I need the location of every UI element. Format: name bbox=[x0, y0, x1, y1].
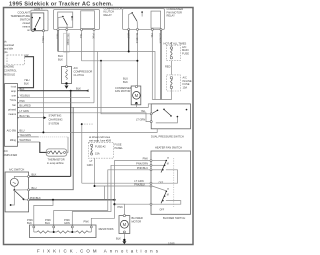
wire9 WHT/BLU to thermistor bbox=[20, 138, 48, 152]
svg-text:in evap airflow: in evap airflow bbox=[47, 161, 64, 165]
dual pressure switch S2 bbox=[150, 104, 190, 129]
fuse panel fuse #2 (dashed) bbox=[88, 142, 113, 158]
svg-text:YEL/GRN: YEL/GRN bbox=[20, 133, 32, 137]
svg-text:FUSE #2: FUSE #2 bbox=[95, 144, 106, 148]
A/C in-line fuse F2 (dashed box) bbox=[167, 75, 181, 91]
wire PNK to blower motor bbox=[115, 204, 151, 214]
wire A2 to amplifier (YEL/BLK) bbox=[19, 57, 34, 88]
svg-text:BLU/BLK: BLU/BLK bbox=[159, 33, 162, 44]
svg-text:YEL: YEL bbox=[150, 33, 153, 38]
svg-text:PANEL: PANEL bbox=[115, 146, 124, 150]
node condenser fan motor return bbox=[135, 102, 137, 107]
compressor clutch relay label bbox=[104, 6, 123, 16]
svg-text:amp: amp bbox=[11, 90, 17, 93]
svg-text:BLU/BLK: BLU/BLK bbox=[135, 33, 138, 44]
blower motor label bbox=[132, 216, 143, 224]
svg-text:at drivers left knee: at drivers left knee bbox=[89, 135, 111, 139]
A/C amplifier label bbox=[4, 149, 18, 157]
svg-text:GRN: GRN bbox=[64, 221, 70, 225]
svg-text:YEL/BLU: YEL/BLU bbox=[20, 94, 31, 98]
svg-text:A/C SWITCH: A/C SWITCH bbox=[9, 168, 24, 172]
svg-text:LT GRN: LT GRN bbox=[20, 109, 29, 113]
svg-text:RELAY: RELAY bbox=[167, 14, 176, 18]
svg-text:RESISTORS: RESISTORS bbox=[99, 227, 114, 231]
svg-text:BLK: BLK bbox=[20, 87, 25, 91]
heater fan switch S4 bbox=[150, 151, 191, 214]
wire BLU/RED amp wire4 to DPS box bbox=[19, 104, 152, 108]
svg-text:Idling: Idling bbox=[10, 138, 17, 142]
wire Y/BLU from coolant switch to wire7 bbox=[41, 32, 44, 133]
border frame bbox=[4, 8, 194, 245]
wire LT GRN fuse panel to heater fan switch bbox=[82, 158, 150, 187]
svg-text:BLK: BLK bbox=[58, 58, 63, 62]
wire3 PNK to relay t4 bbox=[20, 99, 95, 103]
svg-text:BLU: BLU bbox=[45, 221, 50, 225]
svg-text:BLK: BLK bbox=[123, 80, 128, 84]
svg-text:STARTING: STARTING bbox=[49, 114, 62, 118]
svg-text:means: means bbox=[8, 113, 16, 116]
coolant temperature switch text bbox=[11, 11, 31, 32]
svg-text:PNK/GRN: PNK/GRN bbox=[136, 161, 148, 165]
svg-text:t-out: t-out bbox=[11, 85, 16, 89]
wire PNK relay t4 down to amp wire3 bbox=[92, 31, 95, 103]
svg-text:M: M bbox=[123, 222, 127, 227]
svg-text:WHT: WHT bbox=[56, 34, 59, 40]
ground at compressor clutch bbox=[65, 86, 69, 89]
wire riser v1 to PNK/BLK junction bbox=[103, 186, 105, 200]
condenser fan motor relay label bbox=[167, 7, 184, 17]
svg-text:CONDENSER: CONDENSER bbox=[115, 86, 132, 90]
svg-text:COMPRESSOR: COMPRESSOR bbox=[74, 70, 93, 74]
svg-text:PNK/: PNK/ bbox=[64, 218, 70, 222]
svg-text:LT: LT bbox=[90, 159, 93, 163]
A/C compressor clutch label bbox=[74, 66, 93, 77]
svg-text:WHT/BLU: WHT/BLU bbox=[20, 138, 32, 142]
wire6 BLK/YEL to starting system bbox=[20, 114, 47, 119]
wire line1 WHT bus bbox=[58, 51, 155, 100]
svg-text:COOLANT: COOLANT bbox=[17, 11, 30, 15]
svg-text:SWITCH: SWITCH bbox=[20, 18, 30, 22]
wire WHT from relay t1 to line1 bbox=[56, 31, 59, 52]
svg-text:M: M bbox=[167, 194, 169, 196]
svg-text:BLOWER SWITCH: BLOWER SWITCH bbox=[163, 216, 185, 220]
coolant temperature switch S1 bbox=[31, 10, 48, 32]
wire RED between fuses bbox=[165, 61, 171, 75]
svg-text:THERMISTOR: THERMISTOR bbox=[48, 157, 65, 161]
resistor tap labels bbox=[27, 218, 89, 225]
svg-text:1995: 1995 bbox=[168, 242, 175, 246]
text i/s overload note bbox=[4, 39, 15, 54]
A/C switch S3 with lamp bbox=[5, 172, 30, 212]
svg-text:PNK: PNK bbox=[20, 99, 26, 103]
svg-text:PNK: PNK bbox=[84, 219, 90, 223]
wire YEL to dual pressure switch bbox=[101, 61, 150, 114]
svg-text:BLOWER: BLOWER bbox=[132, 216, 143, 220]
wire PNK/GRN switch to resistor tap3 bbox=[72, 165, 150, 226]
svg-text:A/C: A/C bbox=[4, 149, 8, 153]
svg-text:A/C: A/C bbox=[74, 66, 78, 70]
svg-text:AMPLIFIER: AMPLIFIER bbox=[4, 153, 18, 157]
svg-text:CONTROL: CONTROL bbox=[4, 68, 17, 72]
wire YEL condenser relay t3 down to fuse output bbox=[150, 30, 153, 99]
A/C main fuse F1 (dashed box) bbox=[167, 42, 181, 61]
condenser fan motor M1 bbox=[115, 86, 141, 105]
svg-text:pts.: pts. bbox=[4, 50, 8, 54]
svg-text:FUSE: FUSE bbox=[183, 82, 190, 86]
svg-text:1995 Sidekick or Tracker AC sc: 1995 Sidekick or Tracker AC schem. bbox=[9, 2, 113, 8]
svg-text:CLUTCH: CLUTCH bbox=[74, 73, 85, 77]
wire BLK A/C switch to riser bbox=[30, 175, 71, 177]
svg-text:HEATER FAN SWITCH: HEATER FAN SWITCH bbox=[155, 146, 182, 150]
label 220d F bbox=[34, 7, 46, 11]
svg-text:PNK: PNK bbox=[118, 205, 124, 209]
svg-text:BLK: BLK bbox=[24, 81, 29, 85]
svg-text:MODULE: MODULE bbox=[4, 72, 15, 76]
ground at blower motor bbox=[122, 239, 126, 244]
svg-text:15A: 15A bbox=[183, 86, 188, 90]
svg-text:SYSTEM: SYSTEM bbox=[49, 122, 60, 126]
svg-text:A/C: A/C bbox=[183, 75, 187, 79]
svg-text:Y/BLU: Y/BLU bbox=[41, 36, 44, 43]
svg-text:FIXKICK.COM Annotations: FIXKICK.COM Annotations bbox=[37, 249, 161, 254]
wire line1 branch down to fuse panel bbox=[97, 52, 99, 143]
thermistor R1 bbox=[46, 149, 67, 156]
blower resistors R2 bbox=[30, 225, 97, 238]
svg-text:BLU: BLU bbox=[20, 129, 25, 133]
svg-text:WHT: WHT bbox=[126, 33, 129, 39]
svg-text:PNK/: PNK/ bbox=[27, 218, 33, 222]
svg-text:FUSE: FUSE bbox=[182, 52, 189, 56]
svg-text:PNK/: PNK/ bbox=[45, 218, 51, 222]
wire PNK switch to resistor tap4 and motor bbox=[91, 161, 150, 226]
thermistor label bbox=[47, 157, 65, 165]
wire2 YEL/BLU bbox=[20, 94, 91, 98]
svg-text:A/C-SW: A/C-SW bbox=[7, 128, 17, 132]
wire BLU/BLK condenser relay t4 down bbox=[159, 30, 162, 99]
svg-text:MOTOR: MOTOR bbox=[132, 220, 142, 224]
svg-text:RED: RED bbox=[165, 64, 171, 68]
svg-text:PNK: PNK bbox=[92, 34, 95, 39]
svg-text:CHARGING: CHARGING bbox=[49, 118, 63, 122]
wire BLK blower motor to ground bbox=[116, 234, 124, 241]
svg-text:GRN: GRN bbox=[87, 163, 93, 167]
wire fuse2 output to relays bbox=[152, 89, 171, 100]
wire8 YEL/GRN to thermistor bbox=[20, 133, 69, 152]
svg-text:BLK: BLK bbox=[76, 86, 81, 90]
svg-text:M: M bbox=[167, 164, 169, 166]
svg-text:BLU/RED: BLU/RED bbox=[20, 104, 31, 108]
svg-text:*Ctrls: *Ctrls bbox=[10, 98, 17, 102]
svg-text:FAN MOTOR: FAN MOTOR bbox=[115, 89, 130, 93]
svg-text:PNK/BLK: PNK/BLK bbox=[134, 182, 145, 186]
A/C in-line fuse label bbox=[183, 75, 192, 89]
svg-text:DUAL PRESSURE SWITCH: DUAL PRESSURE SWITCH bbox=[151, 135, 184, 139]
A/C amplifier U1 bbox=[5, 84, 20, 147]
blower motor M2 bbox=[119, 215, 130, 234]
wire YEL relay t3 to line2 bbox=[79, 31, 82, 61]
svg-text:BLK/YEL: BLK/YEL bbox=[20, 114, 31, 118]
fuse panel note text bbox=[89, 135, 111, 143]
svg-text:and idle: and idle bbox=[4, 46, 14, 50]
svg-text:PNK: PNK bbox=[143, 157, 149, 161]
svg-text:BLU/RED: BLU/RED bbox=[66, 34, 69, 45]
svg-text:A/C: A/C bbox=[182, 45, 186, 49]
svg-text:OFF: OFF bbox=[160, 209, 165, 211]
engine control module ECM (dashed) bbox=[4, 53, 29, 76]
inline connector on BLU wire from A/C switch bbox=[29, 107, 93, 189]
svg-text:primed: primed bbox=[8, 108, 16, 112]
heater fan switch feed labels bbox=[136, 157, 148, 170]
svg-text:TEMPERATURE: TEMPERATURE bbox=[11, 14, 31, 18]
wire line2 YEL bus bbox=[82, 60, 139, 62]
svg-text:ENGINE: ENGINE bbox=[4, 64, 14, 68]
wire LT GRN amp wire5 to DPS t2 bbox=[19, 113, 151, 122]
svg-text:PNK/BLU: PNK/BLU bbox=[137, 166, 148, 170]
wire7 BLU amp to DPS bbox=[20, 129, 158, 134]
compressor clutch relay K1 bbox=[54, 10, 100, 31]
wire BLU/RED relay t2 to clutch bbox=[58, 31, 69, 66]
svg-text:fan: fan bbox=[12, 103, 16, 107]
svg-text:IN/LINE: IN/LINE bbox=[183, 79, 192, 83]
svg-text:YEL: YEL bbox=[79, 34, 82, 39]
svg-text:BLK: BLK bbox=[27, 221, 32, 225]
wire PNK/BLK A/C switch to heater circuit bbox=[30, 199, 116, 201]
A/C compressor clutch L1 bbox=[62, 66, 72, 85]
A/C switch wire labels bbox=[30, 173, 41, 200]
fuse panel label bbox=[115, 143, 124, 151]
starting charging system label bbox=[49, 114, 63, 126]
wire BLU/BLK condenser relay t2 to condenser motor bbox=[123, 30, 138, 86]
svg-text:BLU: BLU bbox=[32, 186, 37, 190]
condenser fan motor relay K2 bbox=[123, 9, 165, 31]
svg-text:RELAY: RELAY bbox=[104, 13, 113, 17]
svg-text:BLK: BLK bbox=[116, 237, 121, 241]
svg-text:LT GRN: LT GRN bbox=[136, 117, 145, 121]
svg-text:one: one bbox=[12, 95, 17, 98]
svg-text:overload: overload bbox=[4, 43, 15, 47]
svg-text:MAIN: MAIN bbox=[182, 48, 189, 52]
svg-text:FUSE: FUSE bbox=[115, 143, 122, 147]
svg-text:closed: closed bbox=[23, 21, 31, 25]
wire branch PNK/BLK down to resistor tap1 bbox=[34, 200, 53, 226]
svg-text:BLU: BLU bbox=[58, 54, 63, 58]
wire PNK/BLU switch to resistor tap2 bbox=[54, 170, 150, 226]
wire WHT condenser relay t1 to line1 bbox=[126, 30, 129, 51]
A/C main fuse label bbox=[182, 45, 189, 56]
svg-text:M: M bbox=[135, 93, 139, 98]
wire1 BLK amp to A/C switch (via junction) bbox=[20, 86, 89, 176]
svg-text:15A: 15A bbox=[95, 152, 100, 156]
